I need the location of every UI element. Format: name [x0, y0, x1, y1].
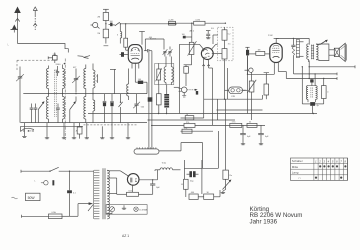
resistor R13	[230, 122, 242, 128]
bus wire upper	[23, 93, 147, 94]
capacitor C23	[67, 171, 76, 216]
svg-text:17k: 17k	[184, 128, 187, 130]
title line 3	[250, 218, 278, 225]
svg-text:400: 400	[149, 37, 152, 39]
resistor R9	[256, 49, 265, 55]
resistor R5	[169, 19, 176, 25]
field coil L12	[155, 168, 181, 170]
bus wire main	[88, 113, 317, 114]
output transformer T1 secondary	[316, 44, 318, 60]
coil L1a lower	[47, 89, 49, 123]
wire screen feed	[110, 69, 116, 93]
IF can 2 dashed box	[218, 27, 233, 61]
svg-text:100: 100	[110, 21, 113, 23]
fuse F1	[49, 211, 63, 219]
trimmer capacitor C2	[72, 69, 80, 93]
wire antenna feed	[18, 44, 69, 53]
resistor R19	[223, 160, 233, 179]
capacitor C10	[109, 21, 113, 26]
IF coil L6	[164, 57, 166, 85]
wave switch contact	[78, 56, 91, 59]
capacitor C27	[182, 34, 192, 38]
wire heater taps	[107, 178, 126, 194]
field coil L11	[308, 86, 317, 103]
wire heater feed a	[148, 52, 150, 148]
svg-text:1M: 1M	[258, 49, 261, 51]
bus wire lower second	[21, 125, 137, 126]
grid cap wire	[139, 32, 145, 45]
switch table grid	[291, 158, 348, 180]
capacitor C28	[56, 104, 60, 123]
aux antenna A2	[33, 7, 37, 30]
pot P2	[223, 179, 232, 189]
switch S1b	[119, 94, 123, 123]
svg-text:14: 14	[181, 184, 183, 186]
tuning gang coupling dashed line	[17, 60, 57, 70]
resistor R4	[124, 24, 129, 50]
wire R6 right	[205, 23, 226, 24]
coil tap mark	[96, 74, 98, 83]
ground L2	[45, 123, 49, 139]
ground mixer	[126, 123, 130, 139]
label ACH1	[150, 38, 157, 41]
wire heater top	[184, 131, 218, 168]
band switch	[21, 127, 35, 132]
wire HT right	[157, 170, 159, 180]
tube V3	[270, 43, 282, 62]
resistor R1	[76, 123, 82, 139]
wire between R5 R6	[176, 23, 194, 24]
transformer T2 secondary	[107, 170, 109, 219]
title line 1	[250, 206, 270, 213]
wire avc right	[174, 44, 180, 113]
wire to speaker upper	[329, 49, 334, 51]
wire v2 grid feed	[180, 43, 200, 45]
choke L8	[164, 85, 169, 114]
wire rectifier bottom	[132, 185, 134, 192]
svg-text:L: L	[35, 181, 36, 183]
svg-text:Jahr 1936: Jahr 1936	[250, 218, 278, 225]
svg-text:1M: 1M	[97, 33, 100, 35]
wire to speaker lower	[329, 54, 334, 56]
wire V2 anode	[212, 53, 222, 55]
wire heater step 2	[159, 143, 183, 151]
band stop filter	[225, 87, 248, 98]
table row pickup	[299, 177, 343, 181]
svg-text:2k: 2k	[186, 114, 188, 116]
mains switch S4	[49, 167, 93, 172]
field coil L10	[306, 86, 308, 103]
field coil label	[162, 162, 167, 164]
wire cathode row	[198, 190, 220, 197]
volume pot P1	[241, 75, 256, 121]
terminal strip	[296, 40, 303, 58]
capacitor C14	[206, 28, 214, 39]
resistor R11	[185, 114, 194, 120]
capacitor C15	[245, 47, 249, 74]
jack J3	[245, 68, 254, 75]
capacitor C16	[291, 38, 295, 74]
field core	[311, 88, 313, 98]
wire row y118	[181, 117, 204, 119]
interference suppressor	[35, 180, 55, 185]
capacitor C6	[34, 104, 38, 123]
label AB2	[190, 30, 195, 33]
wire stub terminal 2	[294, 73, 337, 86]
label mains	[12, 197, 18, 199]
IF trimmer Cb	[168, 47, 173, 57]
resistor R12	[184, 122, 195, 127]
coil L3 upper	[84, 65, 86, 89]
resistor R7	[222, 27, 230, 48]
wire heater feed b	[151, 51, 153, 149]
ground C8	[110, 123, 114, 139]
ground switch	[72, 123, 76, 139]
svg-text:50μ: 50μ	[190, 181, 193, 183]
tube V3 pins	[274, 63, 278, 69]
resistor R3	[97, 29, 108, 43]
label AL4	[268, 35, 273, 37]
resistor R15	[182, 128, 192, 133]
svg-text:U-STAB: U-STAB	[139, 209, 147, 212]
tube V3 top lead	[274, 38, 279, 43]
svg-text:0.2: 0.2	[228, 34, 231, 36]
capacitor C25	[144, 49, 152, 52]
resistor R17	[189, 192, 198, 199]
svg-text:50W: 50W	[28, 196, 36, 200]
symbol motor	[110, 207, 115, 215]
IF tuning slug	[156, 63, 162, 84]
electrolytic C21	[258, 125, 269, 144]
wire agc row	[168, 23, 176, 25]
gang dash-dot line	[64, 59, 66, 141]
capacitor C7	[103, 94, 107, 123]
wire det drop	[247, 56, 249, 114]
label uA	[8, 43, 10, 47]
coil L1b upper	[63, 65, 65, 89]
label MT	[73, 67, 77, 69]
lamp box	[106, 205, 147, 215]
resistor R16	[181, 179, 188, 197]
capacitor C26	[148, 97, 153, 101]
ground L3	[62, 123, 66, 139]
coil L1b lower	[63, 89, 65, 123]
table header text	[292, 159, 347, 163]
IF can 1 box	[155, 63, 174, 84]
mains wire top	[21, 170, 50, 173]
symbol ground box	[122, 205, 126, 209]
resistor R2	[97, 9, 108, 20]
resistor R23	[184, 67, 189, 86]
node 2000	[56, 63, 66, 66]
output transformer T1 core	[311, 45, 314, 60]
svg-text:2: 2	[318, 159, 321, 163]
svg-text:AZ 1: AZ 1	[122, 234, 129, 238]
tube V2 pins	[202, 59, 209, 66]
switch S6	[70, 97, 76, 123]
wire rectifier out	[139, 179, 158, 180]
matching arrow	[320, 40, 328, 45]
svg-text:Lang: Lang	[292, 170, 299, 174]
IF coil L7	[171, 57, 173, 85]
table row Mitte	[292, 165, 347, 169]
wire stub terminal 3	[286, 77, 337, 80]
capacitor C17	[310, 79, 313, 86]
oscillator feedback coil L9	[127, 69, 129, 101]
resistor R22	[188, 41, 197, 65]
wire af row 1	[204, 99, 263, 100]
IF trimmer Ca	[163, 39, 168, 57]
wire stub terminal 1	[309, 61, 356, 79]
svg-text:2M: 2M	[97, 17, 100, 19]
arrow J2	[187, 89, 198, 95]
capacitor Cw	[55, 66, 60, 76]
capacitor C13	[135, 70, 143, 85]
svg-text:4μ: 4μ	[317, 105, 319, 107]
bus wire lower	[21, 122, 148, 124]
resistor R21	[157, 85, 162, 114]
svg-text:0.1M: 0.1M	[196, 19, 201, 21]
wire anode supply	[145, 37, 164, 51]
wire agc to can	[213, 35, 218, 44]
switch S5	[38, 101, 44, 122]
svg-text:5k: 5k	[249, 122, 251, 124]
svg-text:C2B: C2B	[231, 96, 236, 98]
svg-text:0.5A: 0.5A	[52, 211, 57, 214]
wire heater link	[107, 170, 156, 214]
antenna A1	[14, 7, 21, 44]
pickup jack J2	[179, 87, 188, 97]
oscillator coil L4	[93, 64, 95, 123]
core band filter 1	[55, 70, 57, 117]
table row Lang	[292, 170, 299, 174]
wire x217	[217, 99, 219, 120]
svg-text:0.1: 0.1	[73, 192, 76, 194]
wire grid line	[120, 23, 176, 24]
transformer T2 primary	[94, 170, 100, 219]
wire V3 grid return	[247, 69, 274, 76]
wire V3 anode top	[276, 38, 309, 44]
wire x212	[212, 68, 214, 125]
wire HT top	[107, 171, 128, 176]
capacitor C19	[310, 102, 319, 113]
coil L5	[117, 24, 122, 44]
ground bus left	[22, 123, 31, 138]
wire R2 to R3	[105, 21, 106, 30]
node R3 end	[104, 45, 109, 47]
svg-text:0.5M: 0.5M	[241, 90, 246, 92]
electrolytic C20	[240, 125, 251, 144]
electrolytic C22	[187, 171, 199, 182]
wire row y131	[181, 130, 214, 132]
wire row y120	[148, 119, 236, 121]
label AZ1	[122, 234, 129, 238]
ground P2	[221, 190, 226, 194]
wire det return	[184, 65, 192, 67]
wire v2 cathode drop	[204, 65, 213, 119]
trimmer capacitor C1	[16, 67, 24, 123]
svg-text:100: 100	[138, 79, 141, 81]
svg-text:0.2M: 0.2M	[169, 19, 174, 21]
capacitor C18	[315, 79, 329, 104]
wire af row 2	[217, 109, 263, 111]
wire x184 drop	[183, 160, 185, 179]
resistor R8	[222, 44, 230, 100]
wire x278 down	[278, 69, 286, 79]
voltage tap arrow	[88, 202, 93, 211]
capacitor C8	[110, 94, 114, 123]
wire x201 drop	[201, 160, 203, 197]
title line 2	[250, 212, 303, 219]
wire x262	[262, 95, 264, 99]
coil L1a upper	[46, 66, 48, 89]
resistor R14	[247, 122, 257, 128]
wire R9 V3	[265, 53, 270, 55]
padder capacitor C9	[133, 94, 145, 114]
wire agc drop	[191, 23, 193, 42]
svg-text:4041: 4041	[28, 131, 32, 133]
ground R1	[80, 126, 105, 139]
svg-text:3: 3	[117, 35, 118, 37]
svg-text:Mitte: Mitte	[292, 165, 299, 169]
tube V2 top leads	[200, 44, 218, 49]
wire speaker return	[302, 66, 311, 104]
tube V1 pins	[132, 63, 139, 69]
wire x147 drop	[148, 119, 152, 126]
svg-text:Schalter: Schalter	[292, 159, 303, 163]
antenna coupling coil	[48, 53, 57, 64]
pickup jack J1	[91, 22, 100, 28]
wire heater step 1	[183, 143, 203, 169]
switch S2	[113, 22, 122, 26]
transformer T2 core	[103, 168, 105, 219]
resistor R6	[194, 19, 205, 25]
speaker matching box	[316, 44, 329, 61]
capacitor C5	[30, 104, 34, 123]
dial lamp symbol	[134, 207, 148, 212]
rectifier V4	[127, 174, 139, 186]
coil L3 lower	[84, 89, 86, 123]
resistor R20	[127, 191, 153, 197]
wire C15 R9	[248, 53, 256, 55]
wire osc cathode	[143, 82, 147, 93]
speaker LS1	[334, 43, 346, 61]
svg-text:3.5: 3.5	[228, 44, 231, 46]
svg-text:2.5M: 2.5M	[268, 35, 273, 37]
wire x227	[226, 68, 228, 160]
earth plug arrow	[11, 25, 19, 33]
svg-text:2000: 2000	[56, 64, 62, 66]
voltage box	[26, 193, 41, 200]
capacitor C11	[120, 52, 129, 57]
svg-text:27k: 27k	[186, 122, 189, 124]
dial lamp strip	[134, 147, 159, 154]
wire fuse right	[62, 204, 89, 217]
svg-text:N.L: N.L	[211, 28, 214, 30]
output transformer T1 primary	[307, 44, 309, 62]
svg-text:8.1k: 8.1k	[129, 191, 133, 193]
grid resistor R10	[264, 73, 269, 100]
mains wire bottom	[22, 215, 49, 218]
resistor R18	[204, 192, 214, 199]
tube V2	[201, 48, 213, 60]
tube V1	[128, 45, 142, 64]
ground oscillator	[85, 123, 89, 139]
capacitor C24	[150, 180, 160, 195]
wire row y125	[151, 124, 265, 126]
